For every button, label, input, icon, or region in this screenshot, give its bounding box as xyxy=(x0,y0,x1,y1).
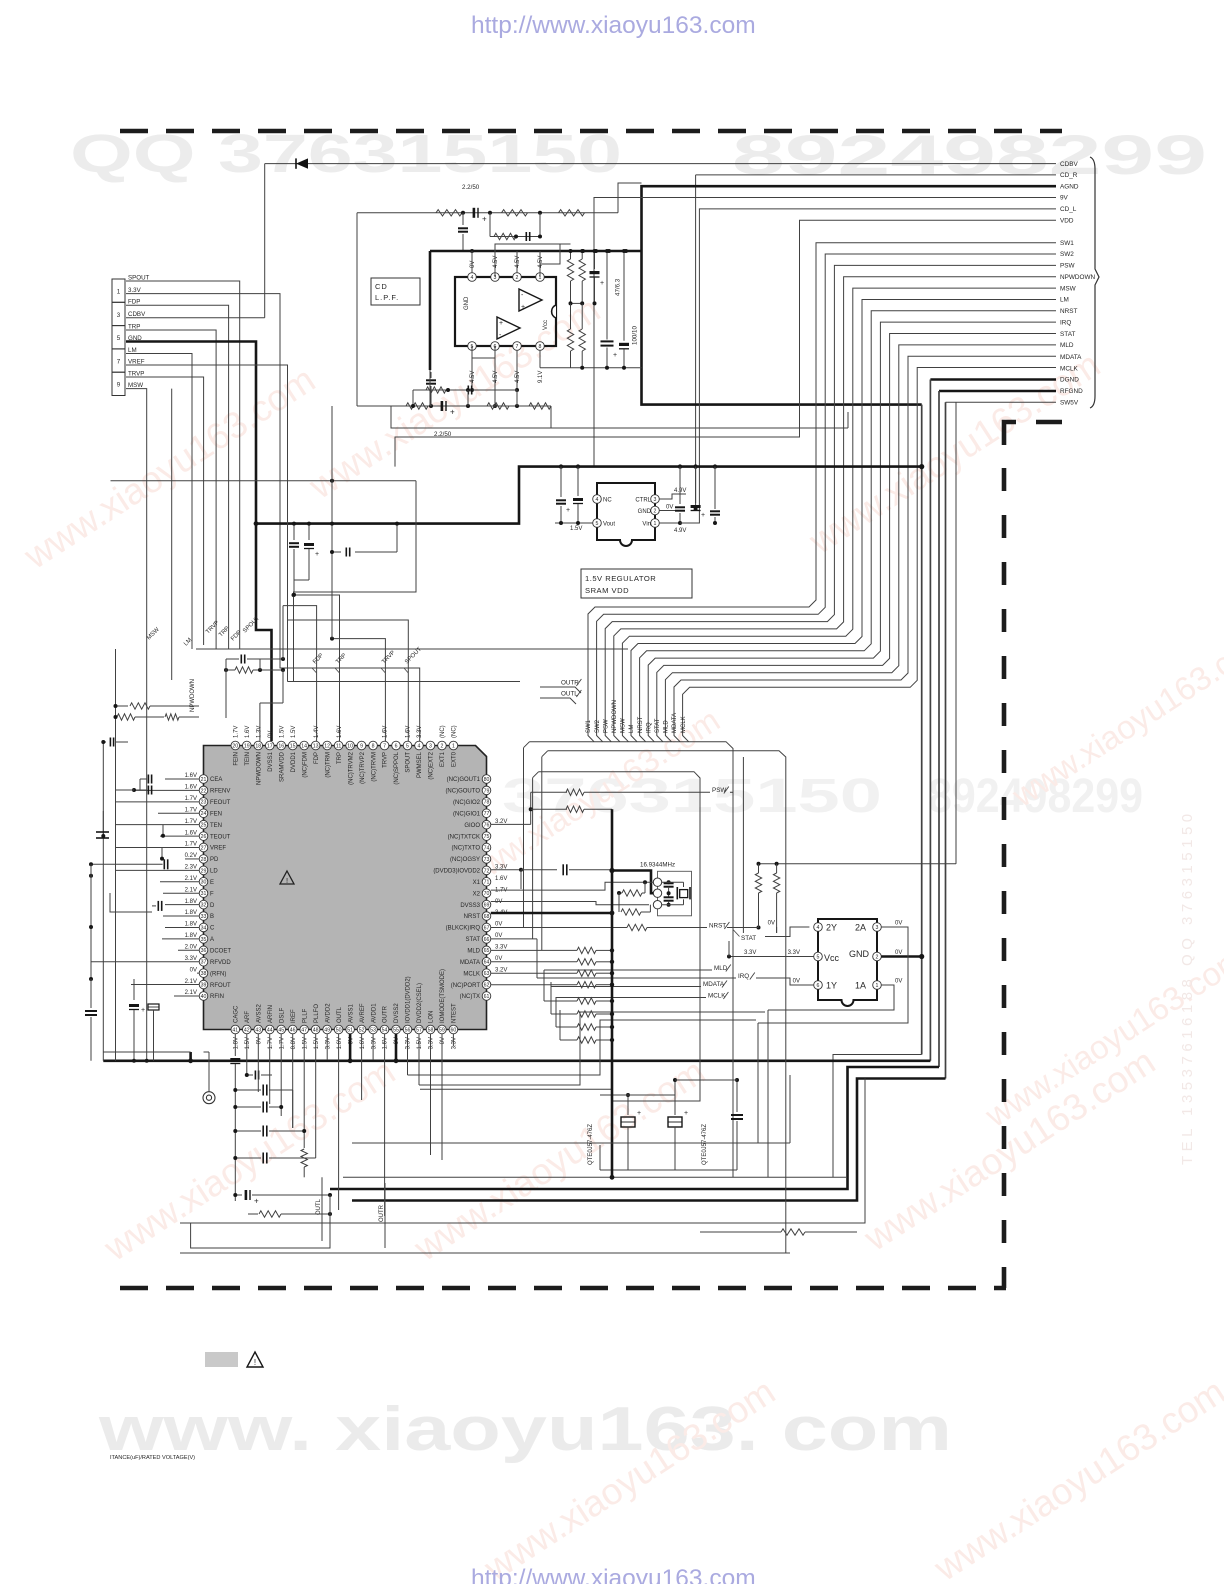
main IC U3 pin 80 (NC)GOUT1 xyxy=(482,775,491,784)
wire QTE left boundary xyxy=(600,1094,628,1096)
svg-text:VREF: VREF xyxy=(128,359,145,366)
svg-text:3.3V: 3.3V xyxy=(429,1037,435,1049)
svg-text:C: C xyxy=(210,926,215,932)
wire pin 39 RFOUT xyxy=(131,984,199,986)
main IC U3 pin 25 TEN xyxy=(199,820,208,829)
resistor ladder xyxy=(556,1026,577,1028)
svg-text:IOVDD1(DVDD2): IOVDD1(DVDD2) xyxy=(406,976,412,1023)
resistor ladder xyxy=(577,947,596,953)
svg-text:35: 35 xyxy=(201,937,207,943)
gate IC U4 pin 6 xyxy=(814,981,823,990)
regulator U2 pin 4 xyxy=(593,495,602,504)
resistor row 2 xyxy=(529,807,533,811)
op-amp B triangle xyxy=(497,317,520,339)
main IC U3 pin 56 IOVDD1(DVDD2) xyxy=(403,1025,412,1034)
svg-text:5: 5 xyxy=(406,743,409,749)
svg-text:(NC)GOUT1: (NC)GOUT1 xyxy=(447,777,481,783)
svg-text:(DVDD3)IOVDD2: (DVDD3)IOVDD2 xyxy=(433,869,480,875)
svg-text:GND: GND xyxy=(464,296,470,310)
svg-text:43: 43 xyxy=(255,1027,261,1033)
svg-text:+: + xyxy=(637,1110,641,1117)
board outline dashed bottom xyxy=(120,1286,1006,1291)
svg-text:72: 72 xyxy=(484,868,490,874)
main IC U3 pin 62 (NC)PORT xyxy=(482,980,491,989)
bus left drop 3 xyxy=(532,778,534,939)
svg-text:19: 19 xyxy=(244,743,250,749)
wire LM from connector xyxy=(126,354,192,650)
svg-text:PWMSEL: PWMSEL xyxy=(417,751,423,778)
svg-text:(NC)OGSY: (NC)OGSY xyxy=(450,857,480,863)
wire bus vdd caps xyxy=(714,467,716,509)
svg-text:11: 11 xyxy=(336,743,341,749)
wire pin 58 below xyxy=(430,1034,432,1155)
svg-text:46: 46 xyxy=(290,1027,296,1033)
svg-text:AVDD1: AVDD1 xyxy=(371,1003,377,1023)
wire 9V thick bus end dot xyxy=(919,464,924,469)
svg-text:16: 16 xyxy=(278,743,284,749)
wire TRVP pin7 xyxy=(332,639,385,741)
svg-text:LM: LM xyxy=(1060,297,1069,304)
main IC U3 pin 7 TRVP xyxy=(380,741,389,750)
wire pin 28 PD xyxy=(185,858,199,860)
main IC U3 pin 61 (NC)TX xyxy=(482,992,491,1001)
wire pin 33 B xyxy=(163,915,199,917)
main IC U3 pin 2 EXT1 xyxy=(438,741,447,750)
main IC U3 pin 67 (BLKCK)IRQ xyxy=(482,923,491,932)
wire QTE bottom rail xyxy=(628,1169,737,1171)
wire RFOUT loop xyxy=(110,893,152,912)
svg-text:2.1V: 2.1V xyxy=(185,876,197,882)
svg-text:(NC)TXTO: (NC)TXTO xyxy=(451,846,480,852)
svg-text:FEOUT: FEOUT xyxy=(210,800,231,806)
svg-text:SW1: SW1 xyxy=(586,719,592,733)
regulator U2 pin 1 xyxy=(651,519,660,528)
op-amp U1 pin 6 bottom xyxy=(491,342,500,351)
op-amp U1 pin 5 bottom xyxy=(468,342,477,351)
svg-text:(NC)SPPOL: (NC)SPPOL xyxy=(394,751,400,784)
main IC U3 pin 41 CAGC xyxy=(231,1025,240,1034)
svg-text:ARFIN: ARFIN xyxy=(268,1005,274,1023)
svg-text:58: 58 xyxy=(428,1027,434,1033)
svg-text:47: 47 xyxy=(301,1027,307,1033)
wire pin 48 below xyxy=(315,1034,317,1152)
regulator caps left xyxy=(560,467,562,497)
svg-text:NPWDOWN: NPWDOWN xyxy=(256,752,262,785)
resistor below IC xyxy=(303,1140,305,1148)
svg-text:3.3V: 3.3V xyxy=(128,287,142,294)
wire RFGND thick xyxy=(939,390,1056,393)
svg-text:RFGND: RFGND xyxy=(1060,388,1083,395)
svg-text:38: 38 xyxy=(201,971,207,977)
svg-text:+: + xyxy=(613,352,617,359)
svg-text:PLLFO: PLLFO xyxy=(314,1004,320,1023)
wire pin 29 LD xyxy=(116,869,200,871)
wire long bottom 1 xyxy=(343,1176,847,1178)
main IC U3 pin 69 DVSS3 xyxy=(482,900,491,909)
main IC U3 pin 46 IREF xyxy=(288,1025,297,1034)
svg-text:EXT1: EXT1 xyxy=(440,751,446,767)
svg-text:44: 44 xyxy=(267,1027,273,1033)
wire FDP from connector xyxy=(126,305,229,649)
wire IRQ to gate xyxy=(756,978,809,985)
capacitor lpf c6 xyxy=(430,372,432,378)
wire QTE top feeds xyxy=(628,1094,675,1096)
wire lpf right loop xyxy=(618,183,642,213)
svg-text:3.3V: 3.3V xyxy=(452,1037,458,1049)
svg-text:http://www.xiaoyu163.com: http://www.xiaoyu163.com xyxy=(471,12,756,39)
svg-text:(NC)GIO1: (NC)GIO1 xyxy=(453,811,481,817)
svg-text:39: 39 xyxy=(201,982,207,988)
svg-text:48: 48 xyxy=(313,1027,319,1033)
wire MSW from connector xyxy=(126,389,147,1061)
svg-text:1.7V: 1.7V xyxy=(185,807,197,813)
svg-text:0V: 0V xyxy=(495,933,502,939)
wire VREF from connector xyxy=(126,365,288,682)
wire vref join xyxy=(288,681,294,683)
svg-text:28: 28 xyxy=(201,857,207,863)
svg-text:TRP: TRP xyxy=(337,752,343,764)
svg-text:2: 2 xyxy=(440,743,443,749)
capacitor lpf e1 xyxy=(473,208,476,218)
resistor pullup 2 xyxy=(776,864,778,873)
main IC U3 pin 19 TEIN xyxy=(242,741,251,750)
wire pin 27 VREF xyxy=(116,847,200,849)
main IC U3 pin 11 TRP xyxy=(334,741,343,750)
wire pin 37 RFVDD xyxy=(91,961,199,963)
bus wire xyxy=(530,742,734,1178)
wire aux vertical xyxy=(171,389,173,680)
svg-text:RFENV: RFENV xyxy=(210,789,230,795)
svg-text:CDBV: CDBV xyxy=(1060,161,1078,168)
svg-text:TEN: TEN xyxy=(210,823,222,829)
bracket right label column xyxy=(1090,157,1099,408)
main IC U3 pin 77 (NC)GIO1 xyxy=(482,809,491,818)
resistor lpf right B2 xyxy=(579,329,585,351)
svg-text:Vin: Vin xyxy=(642,522,651,528)
svg-text:24: 24 xyxy=(201,811,207,817)
svg-text:STAT: STAT xyxy=(1060,331,1075,338)
main IC U3 pin 26 TEOUT xyxy=(199,832,208,841)
svg-text:(NC)FDM: (NC)FDM xyxy=(302,752,308,778)
regulator U2 pin 5 xyxy=(593,519,602,528)
wire MDATA flag row xyxy=(551,986,701,988)
wire IRQ bundle xyxy=(648,322,1056,742)
svg-text:MSW: MSW xyxy=(621,718,627,733)
svg-text:3: 3 xyxy=(654,497,657,503)
svg-text:2.2/50: 2.2/50 xyxy=(462,184,480,191)
svg-text:(NC)TRM: (NC)TRM xyxy=(325,752,331,778)
svg-text:4: 4 xyxy=(817,925,820,931)
wire pin 22 RFENV xyxy=(134,789,199,791)
svg-text:GIOO: GIOO xyxy=(464,823,480,829)
main IC U3 pin 38 (RFN) xyxy=(199,969,208,978)
svg-text:47/6.3: 47/6.3 xyxy=(615,278,622,296)
svg-text:37: 37 xyxy=(201,960,207,966)
wire pin 47 below xyxy=(303,1034,305,1140)
wire vin rail xyxy=(680,522,699,524)
wire pin28 PD stub xyxy=(102,811,104,836)
wire bottom-left thick joiner xyxy=(189,1052,192,1061)
warning triangle inside IC xyxy=(280,871,294,884)
main IC U3 pin 30 E xyxy=(199,877,208,886)
svg-text:STAT: STAT xyxy=(466,937,481,943)
svg-text:3.3V: 3.3V xyxy=(325,1037,331,1049)
circle test point xyxy=(203,1092,215,1104)
wire U4 pin6 xyxy=(790,984,814,986)
svg-text:MLD: MLD xyxy=(664,720,670,733)
resistor npwdown xyxy=(226,669,235,671)
svg-text:FEIN: FEIN xyxy=(234,752,240,766)
main IC U3 pin 40 RFIN xyxy=(199,992,208,1001)
svg-text:1.8V: 1.8V xyxy=(185,922,197,928)
svg-text:1.5V: 1.5V xyxy=(314,1037,320,1049)
svg-text:4.5V: 4.5V xyxy=(470,371,476,383)
wire long bottom 2 xyxy=(180,1252,790,1254)
wire pin 57 below xyxy=(418,1034,420,1085)
main IC U3 pin 53 AVDD1 xyxy=(369,1025,378,1034)
capacitor group below IC xyxy=(262,1085,264,1096)
svg-text:2.1V: 2.1V xyxy=(185,979,197,985)
resistor lpf r5 xyxy=(406,403,428,409)
svg-text:!: ! xyxy=(254,1358,256,1367)
main IC U3 pin 18 NPWDOWN xyxy=(254,741,263,750)
connector pin 7 xyxy=(112,349,125,372)
svg-text:13: 13 xyxy=(313,743,319,749)
main IC U3 pin 75 (NC)TXTCK xyxy=(482,832,491,841)
svg-text:VREF: VREF xyxy=(210,846,226,852)
svg-text:MSW: MSW xyxy=(1060,285,1077,292)
svg-text:2.1V: 2.1V xyxy=(185,887,197,893)
gate IC U4 pin 5 xyxy=(814,952,823,961)
svg-text:30: 30 xyxy=(201,880,207,886)
svg-text:LD: LD xyxy=(210,869,218,875)
svg-text:+: + xyxy=(566,507,570,514)
svg-text:0V: 0V xyxy=(895,979,902,985)
wire pin 36 DCOET xyxy=(178,949,199,951)
svg-text:17: 17 xyxy=(267,743,273,749)
svg-text:PD: PD xyxy=(210,857,219,863)
board outline dashed top xyxy=(120,129,1062,134)
wire left edge vertical 1 xyxy=(115,649,117,1061)
svg-text:54: 54 xyxy=(382,1027,388,1033)
wire pin 44 below xyxy=(269,1034,271,1104)
regulator wires right xyxy=(659,494,686,499)
resistor ladder xyxy=(560,1039,577,1041)
svg-text:0V: 0V xyxy=(256,1037,262,1044)
svg-text:69: 69 xyxy=(484,903,490,909)
capacitor lpf c2 xyxy=(462,213,464,225)
wire IRQ step xyxy=(536,939,538,978)
wire TRP from connector xyxy=(126,330,216,649)
wire pin 31 F xyxy=(163,892,199,894)
svg-text:OUTR: OUTR xyxy=(379,1204,385,1222)
capacitor lpf right D xyxy=(606,251,608,340)
svg-text:9V: 9V xyxy=(1060,195,1069,202)
svg-text:NC: NC xyxy=(603,498,612,504)
svg-text:!: ! xyxy=(286,876,288,885)
svg-text:1.6V: 1.6V xyxy=(383,726,389,738)
bus left drop 2 xyxy=(541,757,543,951)
wire pin 49 below xyxy=(326,1034,328,1060)
wire pin 60 below xyxy=(452,1034,454,1046)
svg-text:SRAM VDD: SRAM VDD xyxy=(585,586,629,595)
wire pin 21 CEA xyxy=(165,778,199,780)
svg-text:IOMODE(TSMODE): IOMODE(TSMODE) xyxy=(440,969,446,1023)
svg-text:3: 3 xyxy=(117,312,121,319)
svg-text:5: 5 xyxy=(817,954,820,960)
wire C A junction xyxy=(161,847,163,858)
svg-text:1.7V: 1.7V xyxy=(268,1037,274,1049)
svg-text:CDBV: CDBV xyxy=(128,311,146,318)
svg-text:AVSS2: AVSS2 xyxy=(256,1003,262,1023)
main IC U3 pin 48 PLLFO xyxy=(311,1025,320,1034)
main IC U3 pin 55 DVSS2 xyxy=(392,1025,401,1034)
main IC U3 pin 17 DVSS1 xyxy=(265,741,274,750)
svg-text:100/10: 100/10 xyxy=(632,326,639,345)
wire 9V xyxy=(594,198,1056,467)
capacitor lpf c7 xyxy=(467,386,469,395)
main IC U3 pin 3 (NC)EXT2 xyxy=(426,741,435,750)
wire thick bottom rail xyxy=(103,1060,930,1063)
board outline dashed right xyxy=(1002,468,1007,1288)
svg-text:(NC)TRVP2: (NC)TRVP2 xyxy=(360,751,366,784)
svg-text:1.8V: 1.8V xyxy=(185,910,197,916)
svg-text:MLD: MLD xyxy=(1060,342,1074,349)
svg-text:79: 79 xyxy=(484,788,490,794)
svg-text:(NC)EXT2: (NC)EXT2 xyxy=(429,751,435,779)
legend shaded box xyxy=(205,1352,238,1367)
svg-text:3.3V: 3.3V xyxy=(495,945,507,951)
main IC U3 pin 27 VREF xyxy=(199,843,208,852)
svg-text:AVDD2: AVDD2 xyxy=(325,1003,331,1023)
svg-text:8: 8 xyxy=(539,344,542,350)
capacitor left edge xyxy=(103,741,106,743)
connector pin 9 xyxy=(112,372,125,395)
wire bottom row 1223 xyxy=(180,1079,865,1224)
wire thick ladder rail xyxy=(611,870,614,1178)
capacitor mid xyxy=(330,522,334,526)
svg-text:www. xiaoyu163. com: www. xiaoyu163. com xyxy=(98,1395,952,1464)
svg-text:2.3V: 2.3V xyxy=(185,865,197,871)
wire LM bundle xyxy=(631,299,1056,741)
wire crystal thick feed xyxy=(612,871,653,894)
op-amp U1 pin 7 bottom xyxy=(513,342,522,351)
svg-text:56: 56 xyxy=(405,1027,411,1033)
svg-text:40: 40 xyxy=(201,994,207,1000)
svg-text:15: 15 xyxy=(290,743,296,749)
op-amp A feedback wire xyxy=(495,244,571,277)
wire VDD xyxy=(395,220,1056,466)
bus wire 2 xyxy=(548,751,786,1253)
wire pin 52 below xyxy=(361,1034,363,1100)
svg-text:4: 4 xyxy=(418,743,421,749)
svg-text:MCLK: MCLK xyxy=(463,971,480,977)
main IC U3 pin 6 (NC)SPPOL xyxy=(392,741,401,750)
svg-text:5: 5 xyxy=(596,521,599,527)
svg-text:OUTR: OUTR xyxy=(383,1005,389,1023)
main IC U3 pin 50 OUTL xyxy=(334,1025,343,1034)
svg-text:MCLK: MCLK xyxy=(681,716,687,733)
wire OUTR bus xyxy=(384,1183,386,1248)
svg-text:18: 18 xyxy=(255,743,261,749)
resistor crystal R2 xyxy=(618,893,620,912)
main IC U3 pin 14 (NC)FDM xyxy=(300,741,309,750)
svg-text:3.3V: 3.3V xyxy=(371,1037,377,1049)
svg-text:(NC)GIO2: (NC)GIO2 xyxy=(453,800,481,806)
svg-text:QTE0J57-476Z: QTE0J57-476Z xyxy=(588,1124,594,1165)
wire mid distribution 1 xyxy=(111,480,417,482)
main IC U3 pin 44 ARFIN xyxy=(265,1025,274,1034)
svg-text:+: + xyxy=(450,408,455,417)
wire MCLK flag row xyxy=(556,997,706,999)
svg-text:3: 3 xyxy=(429,743,432,749)
svg-text:+: + xyxy=(499,320,503,327)
wire CD_L xyxy=(658,209,1056,523)
main IC U3 pin 70 X2 xyxy=(482,889,491,898)
svg-text:7: 7 xyxy=(516,344,519,350)
svg-text:NPWDOWN: NPWDOWN xyxy=(1060,274,1096,281)
main IC U3 pin 34 C xyxy=(199,923,208,932)
svg-text:A: A xyxy=(210,937,214,943)
svg-text:MDATA: MDATA xyxy=(460,960,480,966)
main IC U3 pin 31 F xyxy=(199,889,208,898)
svg-text:LM: LM xyxy=(128,347,137,354)
wire DGND thick xyxy=(930,378,1056,381)
svg-text:1.5V: 1.5V xyxy=(291,726,297,738)
svg-text:1.6V: 1.6V xyxy=(185,773,197,779)
svg-text:1.7V: 1.7V xyxy=(279,1037,285,1049)
wire STAT from bus xyxy=(742,757,744,933)
svg-text:SPOUT: SPOUT xyxy=(128,275,150,282)
svg-text:49: 49 xyxy=(324,1027,330,1033)
wire 3.3V from connector xyxy=(126,294,420,741)
crystal pads xyxy=(653,878,661,886)
svg-text:4.5V: 4.5V xyxy=(515,256,521,268)
svg-text:3.3V: 3.3V xyxy=(417,726,423,738)
svg-text:TRP: TRP xyxy=(128,324,140,331)
wire lpf row low2 xyxy=(413,389,517,391)
svg-text:DGND: DGND xyxy=(1060,377,1079,384)
svg-text:2: 2 xyxy=(654,508,657,514)
capacitor lpf e3 xyxy=(441,401,444,411)
svg-text:1: 1 xyxy=(876,983,879,989)
crystal X1 box xyxy=(658,871,692,916)
wire pin42 ARF xyxy=(247,1034,253,1075)
main IC U3 pin 57 DVDD2(CSEL) xyxy=(415,1025,424,1034)
resistor ladder xyxy=(544,1000,577,1002)
capacitor npwdown xyxy=(226,658,239,660)
wire pin 45 below xyxy=(280,1034,282,1116)
label box 1.5V REGULATOR SRAM VDD xyxy=(581,569,692,598)
svg-text:77: 77 xyxy=(484,811,490,817)
wire IRQ flag row xyxy=(537,977,736,979)
svg-text:9: 9 xyxy=(117,382,121,389)
svg-text:41: 41 xyxy=(232,1027,238,1033)
main IC U3 pin 58 LON xyxy=(426,1025,435,1034)
main IC U3 pin 45 DSLF xyxy=(277,1025,286,1034)
svg-text:9.1V: 9.1V xyxy=(538,371,544,383)
svg-text:26: 26 xyxy=(201,834,207,840)
wire bottom horizontal 3 xyxy=(352,1142,790,1144)
main IC U3 pin 42 ARF xyxy=(242,1025,251,1034)
svg-text:PSW: PSW xyxy=(1060,263,1076,270)
main IC U3 pin 71 X1 xyxy=(482,877,491,886)
svg-text:1.6V: 1.6V xyxy=(360,1037,366,1049)
svg-text:ARF: ARF xyxy=(245,1011,251,1023)
svg-text:DVDD2(CSEL): DVDD2(CSEL) xyxy=(417,983,423,1023)
svg-text:1.6V: 1.6V xyxy=(406,726,412,738)
crystal leads xyxy=(662,881,684,883)
